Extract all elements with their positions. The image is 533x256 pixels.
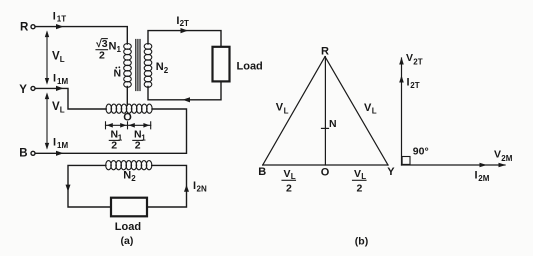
label VL (top) (52, 51, 65, 65)
main primary winding (horizontal) (106, 104, 152, 113)
svg-text:2: 2 (135, 140, 141, 152)
svg-text:R: R (20, 21, 29, 33)
label VL (left side) (276, 102, 289, 116)
voltage arrow VL between Y and B (45, 92, 49, 149)
current arrow I1T (56, 24, 64, 29)
label I2T (176, 15, 189, 28)
node N tick on R-O line (322, 127, 329, 129)
transformer core (136, 40, 140, 91)
label N2 (teaser secondary) (156, 61, 169, 75)
wire R terminal to teaser winding top (35, 27, 127, 44)
terminal Y (31, 86, 35, 90)
svg-text:2: 2 (286, 183, 292, 195)
main secondary winding N2 (horizontal) (106, 161, 152, 170)
svg-text:1T: 1T (57, 15, 66, 24)
node N (with dots) on teaser winding (114, 66, 122, 79)
terminal B (31, 151, 35, 155)
terminal R (31, 25, 35, 29)
label I1M (upper) (53, 73, 68, 87)
load (main secondary) (111, 198, 147, 217)
label I1T (53, 10, 66, 23)
svg-text:I: I (53, 10, 56, 22)
svg-text:I: I (475, 170, 478, 182)
svg-text:O: O (321, 166, 330, 178)
svg-text:1: 1 (118, 134, 123, 143)
phasor triangle side B-R (263, 57, 325, 165)
teaser primary winding sqrt(3)/2 N1 (124, 44, 132, 88)
svg-text:1: 1 (141, 134, 146, 143)
svg-text:V: V (276, 102, 284, 114)
svg-text:2N: 2N (197, 185, 207, 194)
current arrow I2N (up on right wire) (184, 185, 189, 192)
svg-text:90°: 90° (413, 146, 429, 158)
value label N1/2 (left) (111, 129, 123, 152)
svg-text:V: V (354, 168, 361, 180)
svg-text:N: N (123, 170, 131, 182)
label I1M (lower) (53, 137, 68, 151)
phasor triangle side R-Y (325, 57, 388, 165)
svg-text:2: 2 (99, 50, 105, 62)
svg-text:2: 2 (111, 140, 117, 152)
svg-text:Y: Y (387, 166, 395, 178)
svg-text:N: N (329, 118, 337, 130)
current arrow (return, pointing left) (183, 97, 191, 102)
svg-text:V: V (284, 168, 291, 180)
current arrow I2M (phasor) (480, 163, 487, 168)
value label VL/2 (left) (284, 168, 296, 181)
svg-text:(b): (b) (355, 236, 368, 248)
phasor triangle base B-Y (263, 164, 388, 166)
phasor line R-O (324, 57, 326, 165)
current arrow I1M (on Y wire) (56, 86, 64, 91)
svg-text:2: 2 (131, 174, 136, 183)
dimension N1/2 (left half) (106, 122, 128, 129)
svg-text:V: V (52, 51, 60, 63)
svg-text:V: V (52, 101, 60, 113)
svg-text:I: I (53, 73, 56, 85)
svg-text:1M: 1M (57, 141, 68, 150)
svg-text:(a): (a) (121, 235, 134, 247)
svg-text:V: V (494, 149, 501, 161)
current arrow (down on left wire) (66, 185, 71, 192)
current arrow I1M (on B wire) (56, 151, 64, 156)
label V2T (406, 52, 423, 67)
label I2N (193, 180, 207, 194)
axis V2M (horizontal) (402, 163, 506, 168)
wire main secondary left to load (68, 165, 111, 207)
wire load to main secondary right (147, 165, 187, 207)
svg-text:2T: 2T (180, 19, 189, 28)
label N2 (main secondary) (123, 170, 136, 184)
teaser secondary winding N2 (144, 44, 152, 88)
svg-text:1M: 1M (57, 77, 68, 86)
svg-text:2M: 2M (501, 154, 512, 163)
svg-text:Load: Load (237, 61, 263, 73)
svg-text:B: B (19, 148, 27, 160)
wire Y terminal to main winding left end (35, 88, 106, 109)
svg-text:L: L (60, 55, 65, 64)
svg-text:L: L (361, 172, 366, 181)
right angle marker 90 deg (402, 157, 410, 165)
wire teaser secondary top to load (148, 31, 221, 47)
label VL (right side) (364, 102, 377, 116)
svg-text:2T: 2T (410, 81, 419, 90)
svg-text:2M: 2M (478, 174, 489, 183)
label V2M (494, 149, 513, 164)
svg-text:I: I (53, 137, 56, 149)
svg-text:N: N (114, 68, 122, 80)
svg-text:L: L (60, 106, 65, 115)
current arrow I2T (phasor) (399, 75, 404, 82)
label VL (lower) (52, 101, 65, 115)
load (teaser secondary) (213, 47, 230, 82)
label I2T (phasor) (407, 77, 420, 91)
svg-text:2: 2 (357, 183, 363, 195)
svg-text:N: N (109, 41, 117, 53)
svg-text:L: L (372, 107, 377, 116)
svg-text:N: N (156, 61, 164, 73)
svg-text:2T: 2T (413, 58, 422, 67)
value label sqrt(3)/2 N1 (96, 38, 122, 62)
svg-text:L: L (284, 106, 289, 115)
svg-text:Load: Load (115, 221, 141, 233)
axis V2T (vertical) (399, 57, 404, 165)
current arrow I2T (181, 28, 189, 33)
dimension N1/2 (right half) (128, 122, 151, 129)
svg-text:Y: Y (19, 84, 27, 96)
voltage arrow VL between R and Y (45, 30, 49, 84)
svg-text:2: 2 (164, 66, 169, 75)
label I2M (phasor) (475, 170, 490, 184)
wire load bottom back to teaser secondary bottom (148, 81, 221, 99)
wire teaser winding bottom to center tap O (126, 87, 128, 106)
svg-text:1: 1 (117, 45, 122, 54)
svg-text:V: V (364, 102, 372, 114)
svg-text:√3: √3 (96, 38, 108, 50)
svg-text:I: I (407, 77, 410, 89)
svg-text:B: B (258, 166, 266, 178)
value label VL/2 (right) (354, 168, 366, 181)
svg-text:R: R (321, 46, 329, 58)
svg-text:L: L (291, 172, 296, 181)
value label N1/2 (right) (134, 129, 146, 152)
svg-text:V: V (406, 52, 413, 64)
wire B terminal to main winding right end (35, 109, 186, 153)
